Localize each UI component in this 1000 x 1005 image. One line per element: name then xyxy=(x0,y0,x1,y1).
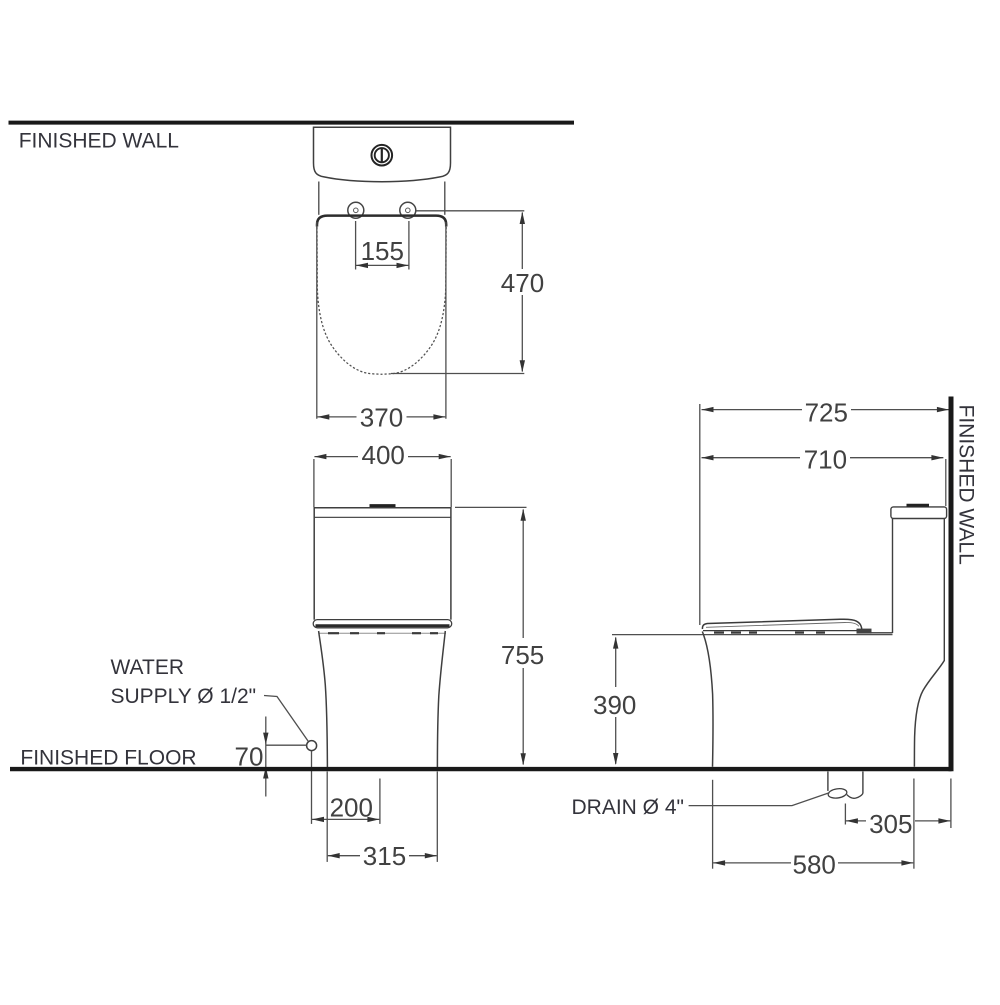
seat top edge plan xyxy=(317,216,446,227)
dim 155 ext lines xyxy=(355,221,357,270)
dim 725 line xyxy=(702,409,803,411)
seat hinge left xyxy=(348,202,364,218)
plan view cistern lid xyxy=(314,127,451,181)
finished wall line top xyxy=(9,121,575,125)
dim 305 line xyxy=(846,820,866,822)
seat side inner line xyxy=(706,622,859,627)
dim 305 left ext xyxy=(844,804,846,825)
floor line xyxy=(10,767,952,771)
svg-text:FINISHED FLOOR: FINISHED FLOOR xyxy=(20,746,196,769)
dim 710 right ext xyxy=(945,459,947,506)
bowl pedestal front left side xyxy=(319,631,328,767)
dim 70 xyxy=(265,717,267,797)
dim 580 right ext xyxy=(913,779,915,869)
dim 200 right ext xyxy=(379,779,381,824)
svg-text:315: 315 xyxy=(363,841,406,871)
svg-text:WATER: WATER xyxy=(111,656,185,679)
cistern front lid joint line xyxy=(314,516,451,518)
svg-text:400: 400 xyxy=(362,440,405,470)
bowl front profile side xyxy=(702,632,713,767)
seat bumpers side xyxy=(714,631,825,633)
dim 710 line xyxy=(702,457,801,459)
svg-text:390: 390 xyxy=(593,690,636,720)
seat hinge right xyxy=(400,202,416,218)
cistern front sides xyxy=(313,508,315,620)
svg-text:710: 710 xyxy=(804,444,847,474)
dim 580 line xyxy=(713,862,791,864)
cistern lid side xyxy=(891,507,947,519)
cistern side front edge xyxy=(892,519,894,634)
dim 755 line xyxy=(522,510,524,639)
seat band front xyxy=(313,620,452,628)
svg-text:SUPPLY Ø 1/2": SUPPLY Ø 1/2" xyxy=(111,685,257,708)
drain pipe xyxy=(827,772,829,791)
svg-text:370: 370 xyxy=(360,402,403,432)
seat side bottom xyxy=(703,630,858,632)
water supply level line xyxy=(266,744,307,746)
seat hinge block side xyxy=(857,629,872,634)
svg-text:470: 470 xyxy=(501,268,544,298)
flush button plan xyxy=(372,145,393,166)
dim 470 ext bottom xyxy=(391,373,524,375)
dim 200 line xyxy=(312,818,379,820)
dim 155 line xyxy=(356,264,409,266)
water supply leader xyxy=(264,696,308,742)
pedestal back profile side xyxy=(914,661,944,767)
seat outline plan dashed xyxy=(317,227,446,374)
dim 400 ext lines xyxy=(313,459,315,508)
svg-text:725: 725 xyxy=(805,397,848,427)
dim 755 ext top xyxy=(455,506,527,508)
dim 400 line xyxy=(314,456,358,458)
side view left ext line xyxy=(699,404,701,625)
flush button front tick xyxy=(370,504,396,507)
dim 315 ext lines xyxy=(326,772,328,862)
water supply circle xyxy=(307,741,317,751)
dim 390 text xyxy=(591,690,639,716)
seat underline and bumpers front xyxy=(319,632,446,634)
svg-text:FINISHED WALL: FINISHED WALL xyxy=(19,130,179,153)
dim 370 line xyxy=(317,416,356,418)
svg-text:305: 305 xyxy=(869,809,912,839)
dim 390 line xyxy=(615,638,617,688)
svg-text:200: 200 xyxy=(330,793,373,823)
drain leader xyxy=(689,793,830,806)
dim 315 line xyxy=(328,855,360,857)
dim 370 ext lines xyxy=(316,222,318,419)
svg-text:155: 155 xyxy=(361,236,404,266)
dim 470 ext top xyxy=(416,210,525,212)
svg-text:FINISHED WALL: FINISHED WALL xyxy=(955,405,978,565)
cistern front top line xyxy=(314,507,451,509)
lid button tick side xyxy=(907,504,930,507)
plan cistern body sides xyxy=(318,182,320,215)
cistern side back edge xyxy=(943,519,945,662)
seat side top xyxy=(702,619,861,629)
svg-text:755: 755 xyxy=(501,640,544,670)
svg-text:DRAIN Ø 4": DRAIN Ø 4" xyxy=(572,796,684,819)
bowl pedestal front right side xyxy=(437,631,445,767)
seat to tank line xyxy=(872,632,893,634)
dim 470 line xyxy=(521,213,523,270)
svg-text:580: 580 xyxy=(793,850,836,880)
dim 305 right ext xyxy=(950,779,952,829)
dim 755 text xyxy=(499,641,546,666)
dim 390 ext line xyxy=(612,634,893,636)
water supply drop line / dim200 left ext xyxy=(311,751,313,824)
finished wall line right xyxy=(949,397,954,772)
dim 580 left ext xyxy=(712,780,714,869)
